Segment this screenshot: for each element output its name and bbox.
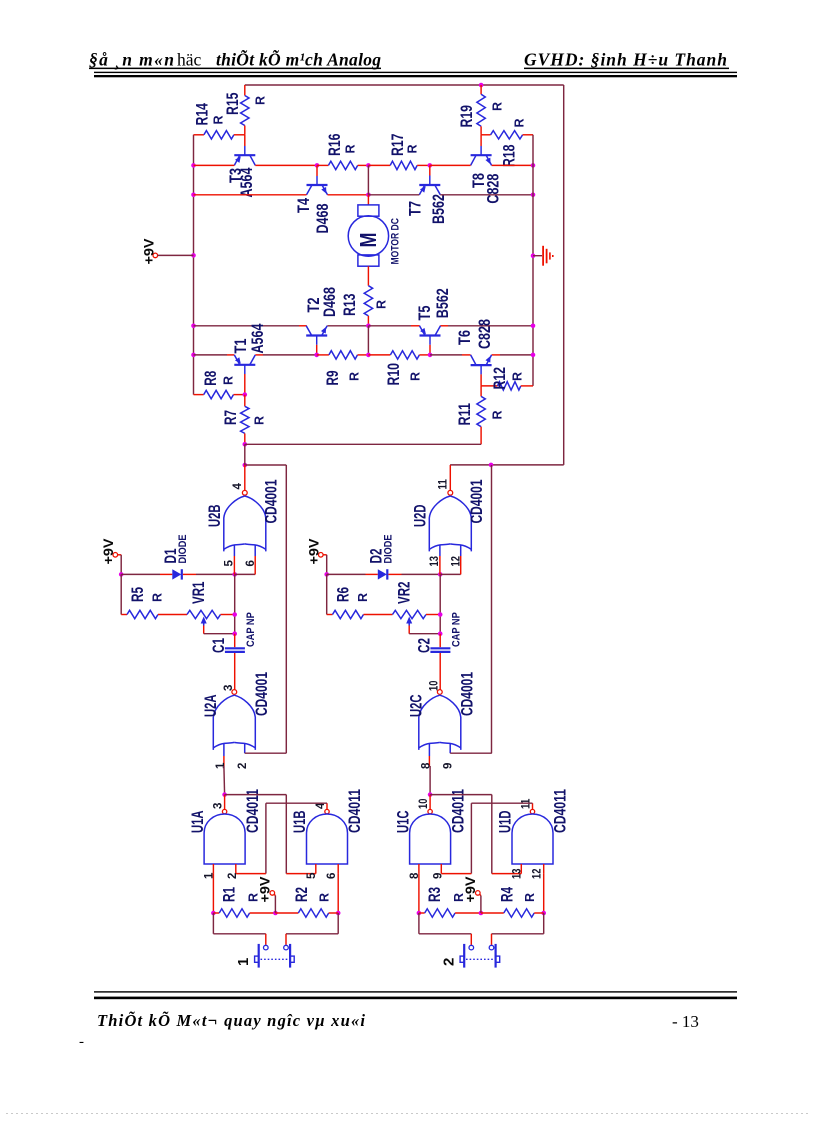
svg-text:T7: T7: [405, 201, 424, 216]
wire R17 right stub: [417, 164, 430, 166]
svg-text:M: M: [355, 233, 381, 248]
svg-text:CD4001: CD4001: [252, 672, 271, 716]
potentiometer VR1: [187, 610, 221, 618]
node wiper column left: [232, 631, 237, 636]
wire rail2 d: [440, 194, 533, 196]
resistor R15: [241, 96, 249, 126]
wire rail3 d: [440, 325, 448, 327]
node rail2 right: [531, 193, 536, 198]
+9V oscillator terminal left: [113, 553, 118, 558]
wire gate2 out stub right: [449, 465, 451, 490]
wire right mid column: [532, 135, 534, 386]
wire R8 left stub: [194, 394, 204, 396]
wire R3 to +9V node: [455, 912, 481, 914]
transistor T8: [471, 154, 492, 156]
svg-text:VR2: VR2: [394, 582, 413, 605]
svg-text:3: 3: [212, 803, 224, 809]
resistor R8: [204, 390, 234, 398]
node rail4 center: [366, 353, 371, 358]
wire R12 right stub: [521, 385, 533, 387]
ground symbol: [542, 246, 544, 266]
svg-text:U1D: U1D: [495, 811, 514, 834]
svg-text:DIODE: DIODE: [383, 535, 395, 564]
svg-text:U2B: U2B: [205, 505, 224, 528]
wire R4 right stub: [534, 912, 544, 914]
transistor T2: [306, 334, 327, 336]
svg-text:thiÕt kÕ m¹ch Analog: thiÕt kÕ m¹ch Analog: [216, 49, 381, 69]
wire R1 to +9V node: [250, 912, 276, 914]
node rail4 T5: [428, 353, 433, 358]
wire rail4 a: [194, 354, 228, 356]
svg-text:CD4001: CD4001: [467, 480, 486, 524]
wire VR right stub right: [426, 614, 440, 616]
nand gate U1A bubble: [222, 809, 226, 813]
svg-text:1: 1: [235, 958, 252, 966]
wire R11 corner drop: [480, 443, 482, 445]
wire switch loop left left: [212, 913, 214, 934]
node left col +9V: [191, 253, 196, 258]
wire pin 12 stub: [460, 545, 462, 556]
motor M1 top brush: [358, 205, 379, 216]
resistor R4: [504, 909, 534, 917]
wire U2D out rail: [450, 464, 564, 466]
wire T3 base lead: [244, 135, 246, 146]
wire U1A out bubble stub: [224, 795, 226, 810]
svg-text:R14: R14: [192, 103, 211, 126]
svg-text:R15: R15: [223, 93, 242, 116]
wire pin stubs U1B inputs: [315, 864, 317, 874]
node left col rail2: [191, 193, 196, 198]
wire pin stubs U1D inputs: [520, 864, 522, 874]
wire wiper jog right: [408, 626, 410, 634]
wire gate1 pin to latch left: [223, 766, 226, 795]
svg-text:6: 6: [245, 560, 257, 566]
svg-text:R: R: [150, 593, 164, 602]
node R7 bottom: [243, 442, 248, 447]
wire 9V to diode right: [327, 573, 366, 575]
wire pins56 rail right: [440, 573, 461, 575]
wire motor top lead: [367, 195, 369, 205]
footer double rule: [94, 991, 737, 992]
svg-text:R: R: [374, 300, 388, 309]
wire U1C cross to U1D in: [430, 794, 492, 796]
node rail1 right: [531, 163, 536, 168]
wire right feedback column: [491, 465, 493, 753]
diode D2: [378, 569, 387, 579]
node rail1 T7: [428, 163, 433, 168]
svg-text:+9V: +9V: [256, 876, 272, 903]
svg-text:U2D: U2D: [410, 505, 429, 528]
wire R2 right stub: [329, 912, 339, 914]
wire ground stub: [533, 255, 542, 257]
capacitor C2: [430, 647, 450, 649]
svg-text:6: 6: [326, 873, 338, 879]
wire switch loop right right: [543, 913, 545, 934]
wire switch loop right left: [337, 913, 339, 934]
wire R19 bottom stub: [480, 126, 482, 135]
wire VR right stub left: [221, 614, 235, 616]
wire R19 top stub: [480, 85, 482, 94]
svg-text:R: R: [221, 376, 235, 385]
svg-text:2: 2: [227, 873, 239, 879]
wire U1B out bubble stub: [326, 803, 328, 809]
node gate2 input rail left: [232, 572, 237, 577]
svg-text:R4: R4: [497, 887, 516, 902]
node U2B output branch: [243, 463, 248, 468]
node rail3 center: [366, 324, 371, 329]
wire T6 base lead: [480, 365, 482, 374]
transistor T4: [307, 184, 328, 186]
svg-text:1: 1: [215, 762, 227, 769]
wire rail3 b: [327, 325, 368, 327]
wire R7node to U2Bout: [244, 444, 246, 465]
transistor T3: [234, 154, 255, 156]
node U2D out branch: [489, 463, 494, 468]
resistor R17: [390, 161, 417, 169]
wire rail4 d: [492, 354, 500, 356]
wire pin 1 stub: [223, 743, 225, 756]
wire R to VR right: [364, 614, 393, 616]
wire rail1 b: [255, 164, 317, 166]
wire pin 6 stub: [254, 545, 256, 556]
svg-text:+9V: +9V: [140, 238, 156, 265]
svg-text:-: -: [79, 1034, 84, 1050]
svg-text:5: 5: [306, 872, 318, 879]
wire R4 left stub: [481, 912, 504, 914]
resistor R5: [127, 610, 158, 618]
resistor R7: [241, 406, 249, 433]
wire R11 bottom stub: [480, 427, 482, 445]
+9V supply terminal: [153, 253, 158, 258]
wire R18 right stub: [523, 134, 533, 136]
wire R12 left stub: [481, 385, 497, 387]
svg-text:R: R: [356, 593, 370, 602]
resistor R13: [364, 286, 372, 316]
wire U1B cross to U1A in: [266, 802, 327, 804]
diode D1: [172, 569, 181, 579]
wire U1B in to R left: [337, 874, 339, 913]
wire R to VR left: [158, 614, 187, 616]
wire U1D cross to U1C in: [471, 802, 532, 804]
svg-text:ThiÕt kÕ M«t¬ quay ngîc vµ xu: ThiÕt kÕ M«t¬ quay ngîc vµ xu«i: [97, 1011, 365, 1030]
svg-text:3: 3: [223, 685, 235, 691]
wire rail3 a: [194, 325, 300, 327]
wire rail1 a: [194, 164, 235, 166]
node R3 left: [417, 911, 422, 916]
wire T4 base lead: [316, 165, 318, 176]
svg-text:häc: häc: [177, 49, 202, 69]
node rail4 T2: [314, 353, 319, 358]
svg-text:12: 12: [531, 869, 543, 879]
transistor T1: [234, 364, 255, 366]
nand gate U1C: [410, 814, 451, 864]
wire left column: [193, 135, 195, 395]
svg-text:R10: R10: [384, 363, 403, 386]
svg-text:VR1: VR1: [189, 582, 208, 605]
wire R18 left stub: [481, 134, 491, 136]
svg-text:R6: R6: [333, 587, 352, 602]
node rail1 center: [366, 163, 371, 168]
wire T7 base lead: [429, 165, 431, 175]
wire R7 bottom stub: [244, 433, 246, 444]
svg-text:10: 10: [428, 681, 440, 691]
svg-text:R12: R12: [490, 367, 509, 390]
svg-text:13: 13: [429, 556, 441, 566]
svg-text:R: R: [343, 144, 357, 153]
node rail2 center: [366, 193, 371, 198]
svg-text:R2: R2: [292, 887, 311, 902]
svg-text:GVHD: §inh H÷u Thanh: GVHD: §inh H÷u Thanh: [524, 49, 727, 69]
wire R14 right stub: [234, 134, 245, 136]
wire T5 base lead: [429, 336, 431, 345]
svg-text:B562: B562: [429, 194, 448, 224]
resistor R19: [477, 94, 485, 126]
wire pin 2 stub jog: [244, 743, 246, 753]
node R1 left: [211, 911, 216, 916]
wire R8 right stub: [234, 394, 245, 396]
wire cap to gate1 out left: [234, 653, 236, 690]
wire R16 right stub: [358, 164, 369, 166]
node left col rail1: [191, 163, 196, 168]
svg-text:R: R: [405, 144, 419, 153]
wire +9V mid hook left: [274, 894, 275, 895]
wire center column mid: [367, 326, 369, 355]
node VR right left: [232, 612, 237, 617]
+9V mid terminal right: [476, 891, 481, 896]
svg-text:C828: C828: [483, 174, 502, 204]
wire switch stub right left: [285, 934, 287, 945]
svg-text:R: R: [211, 115, 225, 124]
svg-text:CD4001: CD4001: [457, 672, 476, 716]
wire rail1 d: [492, 164, 533, 166]
transistor T5: [420, 334, 441, 336]
switch 2 terminals: [469, 945, 474, 950]
bottom dotted separator: [6, 1113, 810, 1115]
wire +9V to left column: [158, 254, 194, 256]
wire column to cap right: [439, 634, 441, 648]
svg-text:R: R: [253, 96, 267, 105]
wire U1D out bubble stub: [532, 803, 534, 809]
switch 1 terminals: [264, 945, 269, 950]
svg-text:U2C: U2C: [406, 695, 425, 718]
wire RC column upper right: [439, 574, 441, 633]
wire rail3 c: [368, 325, 411, 327]
nor gate U2B bubble: [242, 490, 247, 495]
svg-text:10: 10: [418, 799, 430, 809]
nand gate U1D bubble: [530, 809, 534, 813]
wire top rail: [245, 84, 564, 86]
svg-text:CD4011: CD4011: [448, 789, 467, 833]
svg-text:R19: R19: [457, 105, 476, 128]
node R2 right: [336, 911, 341, 916]
svg-text:D468: D468: [313, 204, 332, 234]
svg-text:R: R: [523, 893, 537, 902]
svg-text:A564: A564: [248, 323, 267, 353]
node left col rail4: [191, 353, 196, 358]
svg-text:CD4011: CD4011: [243, 789, 262, 833]
node R19 top rail: [479, 83, 484, 88]
wire pin 9 stub jog: [449, 743, 451, 753]
svg-text:+9V: +9V: [100, 538, 116, 565]
svg-text:R18: R18: [499, 145, 518, 168]
svg-text:2: 2: [237, 763, 249, 769]
switch 1 body: [258, 944, 260, 968]
potentiometer VR2: [393, 610, 427, 618]
nor gate U2D: [429, 496, 450, 551]
motor M1 body: [348, 216, 388, 256]
node rail3 right: [531, 324, 536, 329]
svg-text:D468: D468: [320, 287, 339, 317]
svg-text:11: 11: [437, 479, 449, 490]
svg-text:U1A: U1A: [188, 811, 207, 834]
wire R16 left stub: [317, 164, 328, 166]
resistor R2: [298, 909, 328, 917]
resistor R9: [329, 351, 358, 359]
svg-text:R: R: [490, 102, 504, 111]
wire U2Bout to feedback col: [245, 464, 286, 466]
nand gate U1B: [307, 814, 348, 864]
svg-text:2: 2: [441, 958, 458, 966]
wire R9 right stub: [358, 354, 369, 356]
wire switch stub left left: [265, 934, 267, 945]
svg-text:9: 9: [432, 873, 444, 879]
wire R15 bottom stub: [244, 126, 246, 135]
svg-text:T6: T6: [455, 330, 474, 345]
resistor R12: [498, 382, 521, 390]
wire left feedback column: [285, 465, 287, 753]
wire pin 8 stub: [428, 743, 430, 756]
transistor T7: [419, 184, 440, 186]
nor gate U2B: [224, 496, 245, 551]
svg-text:12: 12: [450, 556, 462, 566]
resistor R1: [219, 909, 249, 917]
svg-text:R: R: [408, 372, 422, 381]
svg-text:R17: R17: [388, 134, 407, 157]
svg-text:U2A: U2A: [201, 695, 220, 718]
svg-text:T4: T4: [294, 198, 313, 213]
wire diode to pins left: [183, 573, 196, 575]
wire +9V mid hook right: [480, 894, 481, 895]
motor M1 bottom brush: [358, 255, 379, 266]
svg-text:DIODE: DIODE: [177, 535, 189, 564]
wire T1 base lead: [244, 365, 246, 374]
wire 9V to diode left: [121, 573, 160, 575]
+9V mid terminal left: [270, 891, 275, 896]
nor gate U2A bubble: [232, 690, 237, 695]
wire rail4 b: [255, 354, 263, 356]
svg-text:R3: R3: [425, 887, 444, 902]
svg-text:R: R: [512, 118, 526, 127]
svg-text:R11: R11: [455, 403, 474, 426]
svg-text:9: 9: [442, 763, 454, 769]
svg-text:T5: T5: [415, 306, 434, 321]
wire gate1 pin to latch right: [429, 766, 431, 795]
wire rail1 c: [430, 164, 471, 166]
svg-text:- 13: - 13: [672, 1012, 699, 1031]
svg-text:R13: R13: [340, 294, 359, 317]
wire U1A cross to U1B in: [225, 794, 287, 796]
node R4 right: [541, 911, 546, 916]
nor gate U2A: [213, 695, 234, 750]
wire R2 left stub: [275, 912, 298, 914]
wire R11 top stub: [480, 386, 482, 397]
resistor R11: [477, 396, 485, 426]
node gate2 input rail right: [438, 572, 443, 577]
wire U1C in to R right: [418, 874, 420, 913]
svg-text:4: 4: [232, 483, 244, 490]
svg-text:R9: R9: [323, 371, 342, 386]
transistor T6: [471, 364, 492, 366]
resistor R18: [491, 131, 523, 139]
wire pin stubs U1A inputs: [212, 864, 214, 874]
capacitor C1: [225, 647, 245, 649]
svg-text:CAP NP: CAP NP: [451, 612, 463, 647]
svg-text:C1: C1: [209, 638, 228, 653]
wire R osc left stub right: [326, 574, 328, 614]
wire gate2 out stub left: [244, 465, 246, 490]
nor gate U2D bubble: [448, 490, 453, 495]
wire R10 left stub: [368, 354, 390, 356]
wire center column upper: [367, 165, 369, 194]
resistor R16: [328, 161, 357, 169]
node +9V mid right: [479, 911, 484, 916]
node +9V mid left: [273, 911, 278, 916]
resistor R3: [425, 909, 455, 917]
switch 2 body: [463, 944, 465, 968]
wire column to cap left: [234, 634, 236, 648]
wire rail2 b: [328, 194, 369, 196]
wire pin 5 stub: [233, 545, 235, 556]
wire pin stubs U1C inputs: [418, 864, 420, 874]
svg-text:U1C: U1C: [393, 811, 412, 834]
header double rule: [94, 72, 737, 73]
wire R9 left stub: [317, 354, 329, 356]
wire R1 left stub: [213, 912, 219, 914]
wire rail2 a: [194, 194, 307, 196]
node 9V rail right: [324, 572, 329, 577]
wire switch stub left right: [470, 934, 472, 945]
svg-text:R5: R5: [128, 587, 147, 602]
wire U1D in to R right: [543, 874, 545, 913]
wire pins56 rail left: [235, 573, 256, 575]
svg-text:R1: R1: [219, 887, 238, 902]
node 9V rail left: [119, 572, 124, 577]
svg-text:R8: R8: [201, 371, 220, 386]
node left col rail3: [191, 324, 196, 329]
wire node1 horizontal: [245, 443, 481, 445]
wire motor bottom lead: [367, 266, 369, 286]
node ground junction: [531, 253, 536, 258]
svg-text:MOTOR DC: MOTOR DC: [390, 218, 402, 264]
wire switch stub right right: [491, 934, 493, 945]
wire T8 base lead: [480, 135, 482, 146]
svg-text:R: R: [317, 893, 331, 902]
node R8 T1 R7 junction: [243, 392, 248, 397]
svg-text:CD4011: CD4011: [550, 789, 569, 833]
wire R3 left stub: [419, 912, 425, 914]
wire R osc left stub left: [120, 574, 122, 614]
wire RC column upper left: [234, 574, 236, 633]
wire wiper jog left: [203, 626, 205, 634]
svg-text:CD4001: CD4001: [262, 480, 281, 524]
svg-text:§å ¸n m«n: §å ¸n m«n: [89, 49, 174, 69]
svg-text:R: R: [510, 372, 524, 381]
node wiper column right: [438, 631, 443, 636]
svg-text:A564: A564: [237, 167, 256, 197]
nand gate U1C bubble: [428, 809, 432, 813]
wire T2 base lead: [316, 336, 318, 345]
node rail1 T4: [315, 163, 320, 168]
